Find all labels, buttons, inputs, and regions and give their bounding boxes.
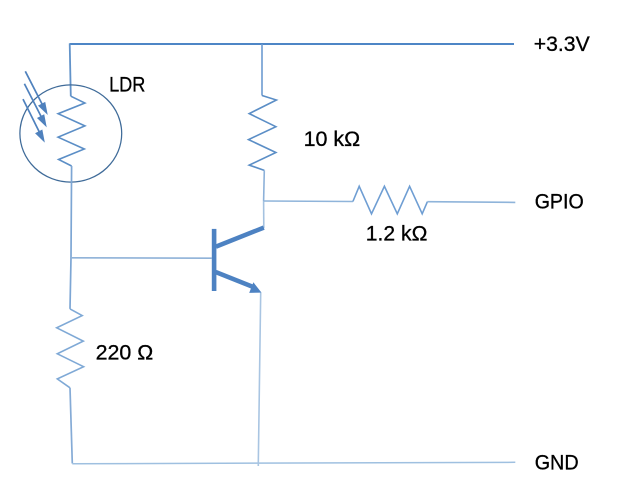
svg-text:GND: GND xyxy=(535,451,579,474)
svg-text:LDR: LDR xyxy=(109,74,145,97)
svg-text:220 Ω: 220 Ω xyxy=(96,342,154,365)
svg-text:GPIO: GPIO xyxy=(535,190,584,213)
svg-text:10 kΩ: 10 kΩ xyxy=(304,128,361,151)
svg-text:+3.3V: +3.3V xyxy=(534,33,590,56)
svg-text:1.2 kΩ: 1.2 kΩ xyxy=(366,223,428,246)
